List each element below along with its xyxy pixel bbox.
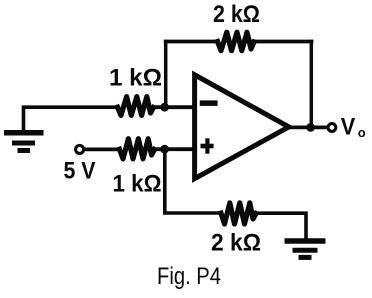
wire from R2 to op-amp noninverting input (155, 147, 194, 151)
wire top feedback right segment (253, 40, 312, 44)
ground (left, inverting input reference) (4, 133, 44, 151)
wire top feedback left segment (166, 40, 218, 44)
terminal: 5 V source open circle (76, 145, 84, 153)
svg-text:5 V: 5 V (64, 157, 96, 184)
svg-text:1 kΩ: 1 kΩ (109, 65, 162, 92)
wire vertical from feedback down to output node (310, 42, 314, 128)
resistor R1 zigzag (1 kOhm inverting input) (118, 97, 154, 116)
svg-text:V: V (341, 113, 356, 140)
svg-text:Fig. P4: Fig. P4 (157, 263, 221, 290)
terminal: output Vo open circle (328, 124, 336, 132)
svg-text:1 kΩ: 1 kΩ (113, 170, 162, 197)
wire vertical from inverting node up to feedback (164, 42, 168, 108)
wire from R1 to op-amp inverting input (154, 105, 195, 109)
op-amp U1 triangle (195, 75, 289, 179)
svg-text:2 kΩ: 2 kΩ (213, 1, 260, 28)
ground (bottom right) (285, 241, 326, 257)
resistor R_f zigzag (2 kOhm feedback) (218, 32, 255, 51)
wire from R3 to bottom-right ground (256, 213, 306, 240)
svg-text:o: o (358, 125, 366, 140)
node: inverting input junction dot (160, 103, 169, 112)
wire op-amp output to terminal (291, 126, 327, 130)
node: noninverting input junction dot (160, 145, 169, 154)
resistor R2 zigzag (1 kOhm noninverting input) (120, 139, 155, 159)
svg-text:2 kΩ: 2 kΩ (211, 230, 261, 257)
wire from left ground corner to R1 (24, 107, 119, 133)
resistor R3 zigzag (2 kOhm to ground) (221, 203, 256, 224)
op-amp inverting input minus sign (203, 100, 215, 106)
wire from noninverting node down to bottom rail (165, 149, 221, 213)
wire from 5V source to R2 (85, 147, 120, 151)
node: output junction dot (306, 123, 315, 132)
op-amp noninverting input plus sign (203, 144, 212, 149)
